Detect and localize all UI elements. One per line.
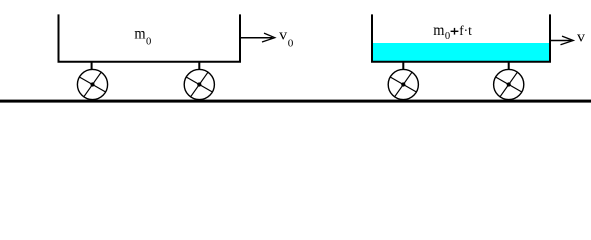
svg-text:m: m — [433, 22, 445, 39]
cyan liquid fill (cart 2) — [373, 43, 550, 62]
svg-text:v: v — [577, 29, 586, 45]
arrow v (cart 2 velocity) — [551, 36, 574, 45]
cart 2 body (open-top container) — [372, 14, 550, 61]
wheel 3 (cart 2 left) — [388, 62, 418, 100]
svg-text:m: m — [134, 26, 146, 43]
ground line — [0, 100, 591, 103]
label v — [577, 29, 586, 45]
plus sign of m0+f·t — [451, 28, 459, 35]
wheel 2 (cart 1 right) — [184, 62, 214, 100]
cart 1 body (open-top container) — [59, 14, 241, 61]
label v0 — [279, 28, 294, 50]
svg-text:0: 0 — [288, 37, 294, 49]
wheel 4 (cart 2 right) — [494, 62, 524, 100]
wheel 1 (cart 1 left) — [77, 62, 107, 100]
svg-text:f·t: f·t — [459, 24, 472, 39]
svg-text:v: v — [279, 28, 288, 44]
label m0 (cart 1) — [134, 26, 151, 48]
svg-text:0: 0 — [146, 36, 152, 48]
arrow v0 (cart 1 velocity) — [240, 33, 275, 42]
label m0+f·t (cart 2) — [433, 22, 472, 42]
svg-text:0: 0 — [445, 30, 451, 42]
